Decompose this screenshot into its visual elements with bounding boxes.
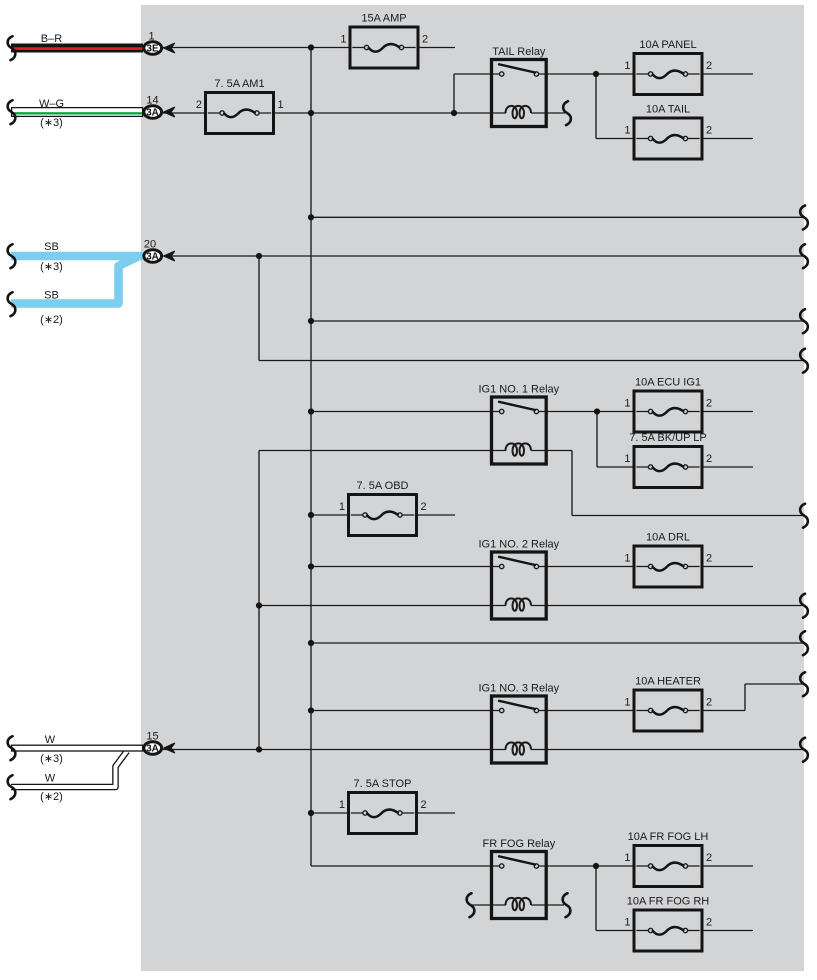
svg-text:1: 1 [624, 60, 630, 72]
svg-text:2: 2 [706, 453, 712, 465]
svg-text:7. 5A STOP: 7. 5A STOP [354, 778, 412, 790]
svg-text:2: 2 [422, 34, 428, 46]
svg-text:3A: 3A [146, 743, 159, 754]
svg-text:10A PANEL: 10A PANEL [639, 39, 696, 51]
svg-text:1: 1 [624, 917, 630, 929]
svg-text:2: 2 [706, 125, 712, 137]
svg-text:2: 2 [196, 99, 202, 111]
svg-text:3E: 3E [147, 43, 159, 54]
svg-text:(∗3): (∗3) [40, 117, 63, 129]
svg-text:IG1 NO. 3 Relay: IG1 NO. 3 Relay [478, 683, 559, 695]
svg-text:SB: SB [44, 290, 59, 302]
svg-text:1: 1 [339, 501, 345, 513]
svg-text:10A HEATER: 10A HEATER [635, 675, 701, 687]
svg-text:W: W [45, 734, 56, 746]
svg-text:(∗2): (∗2) [40, 314, 63, 326]
svg-text:3A: 3A [146, 251, 159, 262]
svg-text:IG1 NO. 1 Relay: IG1 NO. 1 Relay [478, 384, 559, 396]
svg-text:15: 15 [146, 731, 158, 743]
svg-text:B–R: B–R [41, 33, 62, 45]
svg-text:10A FR FOG RH: 10A FR FOG RH [627, 895, 710, 907]
svg-text:1: 1 [624, 553, 630, 565]
svg-text:1: 1 [624, 852, 630, 864]
svg-text:15A AMP: 15A AMP [361, 12, 406, 24]
svg-text:W: W [45, 773, 56, 785]
svg-text:1: 1 [624, 453, 630, 465]
svg-text:2: 2 [706, 697, 712, 709]
svg-text:7. 5A OBD: 7. 5A OBD [357, 480, 409, 492]
svg-text:W–G: W–G [39, 98, 64, 110]
svg-text:10A ECU IG1: 10A ECU IG1 [635, 376, 701, 388]
svg-text:2: 2 [421, 501, 427, 513]
svg-text:7. 5A AM1: 7. 5A AM1 [214, 78, 264, 90]
svg-text:2: 2 [706, 60, 712, 72]
svg-text:7. 5A BK/UP LP: 7. 5A BK/UP LP [629, 432, 706, 444]
svg-text:2: 2 [706, 398, 712, 410]
svg-text:TAIL Relay: TAIL Relay [492, 46, 546, 58]
svg-text:14: 14 [146, 95, 158, 107]
svg-text:2: 2 [421, 799, 427, 811]
svg-text:1: 1 [340, 34, 346, 46]
svg-text:IG1 NO. 2 Relay: IG1 NO. 2 Relay [478, 539, 559, 551]
svg-text:(∗3): (∗3) [40, 261, 63, 273]
svg-text:1: 1 [278, 99, 284, 111]
svg-text:10A TAIL: 10A TAIL [646, 103, 690, 115]
svg-text:FR FOG Relay: FR FOG Relay [482, 838, 555, 850]
svg-text:2: 2 [706, 917, 712, 929]
svg-text:SB: SB [44, 241, 59, 253]
svg-text:(∗2): (∗2) [40, 791, 63, 803]
svg-text:1: 1 [624, 398, 630, 410]
svg-text:1: 1 [339, 799, 345, 811]
svg-text:1: 1 [624, 125, 630, 137]
svg-text:3A: 3A [146, 107, 159, 118]
svg-text:2: 2 [706, 852, 712, 864]
svg-text:2: 2 [706, 553, 712, 565]
svg-text:20: 20 [144, 239, 156, 251]
svg-text:10A FR FOG LH: 10A FR FOG LH [628, 831, 709, 843]
svg-text:1: 1 [148, 31, 154, 43]
svg-text:1: 1 [624, 697, 630, 709]
svg-text:(∗3): (∗3) [40, 753, 63, 765]
svg-text:10A DRL: 10A DRL [646, 531, 690, 543]
